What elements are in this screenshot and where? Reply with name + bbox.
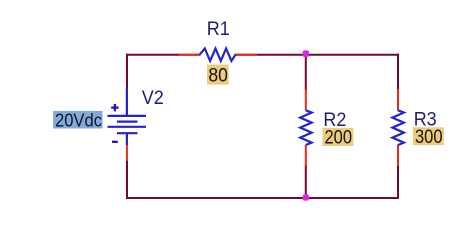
svg-text:300: 300 (415, 127, 443, 148)
svg-text:V2: V2 (142, 87, 164, 109)
svg-text:R1: R1 (207, 18, 230, 40)
svg-text:200: 200 (325, 127, 353, 148)
svg-text:20Vdc: 20Vdc (55, 109, 102, 130)
svg-text:80: 80 (208, 66, 228, 87)
